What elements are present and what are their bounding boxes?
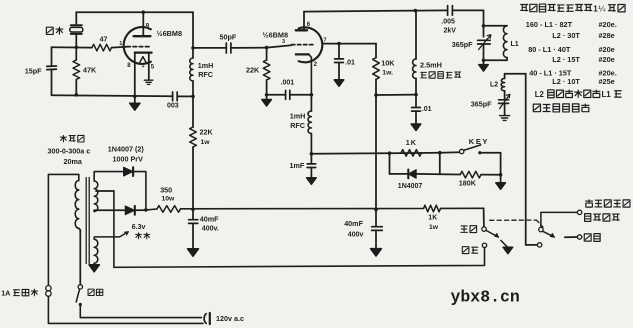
ground C8 — [411, 124, 421, 131]
svg-text:1w.: 1w. — [382, 70, 393, 77]
diode D3 1N4007 — [408, 170, 416, 179]
label 底部叠绕而成 — [533, 104, 540, 112]
svg-text:1K: 1K — [406, 138, 417, 147]
label 变压器 — [60, 135, 67, 142]
label 线输入端 — [585, 214, 591, 222]
node filter2 — [374, 208, 378, 212]
node 50pF tap — [191, 46, 195, 50]
svg-text:¼: ¼ — [598, 4, 606, 14]
svg-text:2: 2 — [314, 62, 318, 68]
resistor R6 1K — [401, 150, 422, 157]
node choke B+ tap — [414, 9, 418, 13]
node cathode return — [310, 93, 314, 97]
svg-text:#28e: #28e — [599, 31, 615, 40]
label 去接收机天 — [585, 199, 593, 207]
label 输入线圈的直径为1¼英寸 — [520, 4, 528, 11]
svg-text:400v.: 400v. — [202, 226, 219, 233]
wire 50pF left — [193, 47, 226, 49]
svg-text:365pF: 365pF — [452, 40, 473, 49]
switch arm TR — [486, 230, 498, 237]
wire tube1 plate lead — [142, 10, 146, 14]
svg-text:#20e.: #20e. — [599, 20, 617, 29]
wire rail to .005 — [415, 9, 447, 11]
svg-text:L2 · 10T: L2 · 10T — [552, 77, 580, 86]
svg-text:1000 PrV: 1000 PrV — [113, 155, 144, 164]
wire D3 to node B — [416, 173, 440, 175]
switch arm antenna — [543, 231, 555, 237]
wire fuse to plug — [48, 296, 203, 323]
terminal antenna switch feed — [537, 243, 541, 247]
fuse F1 1A — [46, 286, 51, 291]
svg-text:1A: 1A — [1, 289, 10, 298]
svg-text:003: 003 — [167, 103, 179, 110]
ground C11 — [188, 249, 199, 256]
wire crystal top stem — [75, 12, 77, 24]
resistor R9 1K 1w — [424, 205, 441, 212]
svg-text:ybx8.cn: ybx8.cn — [451, 288, 520, 307]
plug 120v a.c — [204, 314, 206, 324]
switch KEY — [460, 149, 464, 153]
switch pivot antenna — [539, 227, 543, 231]
terminal 发射 — [482, 243, 486, 247]
wire secondary top to D1 — [94, 172, 122, 181]
node filter1 — [191, 208, 195, 212]
wire top B+ rail (PA) — [304, 11, 415, 12]
svg-text:10w: 10w — [162, 196, 176, 203]
svg-text:180K: 180K — [459, 179, 477, 188]
svg-text:.01: .01 — [422, 106, 432, 113]
ground osc bus — [134, 96, 136, 103]
tube V1 heater arrow — [140, 57, 146, 63]
inductor RFC1 1mH — [190, 58, 193, 81]
tube V2 cathode — [296, 53, 309, 55]
transformer T1 core — [85, 178, 87, 264]
svg-text:120v a.c: 120v a.c — [216, 314, 244, 323]
wire keying bus — [311, 152, 389, 155]
node key ground — [499, 173, 503, 177]
capacitor C8 .01 (choke bypass) — [415, 95, 417, 108]
capacitor C2 .003 — [172, 92, 174, 101]
svg-text:6.3v: 6.3v — [132, 224, 146, 231]
svg-text:400v: 400v — [348, 232, 364, 239]
wire oscillator ground bus — [52, 95, 173, 96]
capacitor C12 40mF 400v — [375, 210, 377, 227]
svg-text:80 - L1 · 40T: 80 - L1 · 40T — [528, 45, 571, 54]
label 开关 — [88, 289, 94, 295]
svg-text:.01: .01 — [345, 60, 355, 67]
wire D1 out — [133, 172, 146, 210]
crystal Y1 (晶体) — [71, 24, 82, 26]
label 天线 — [584, 234, 591, 241]
svg-text:1N4007: 1N4007 — [398, 183, 423, 190]
resistor R4 22K — [266, 48, 268, 60]
wire secondary bottom to D2 — [93, 210, 95, 211]
capacitor C11 40mF 400v — [192, 209, 194, 219]
ground tank — [483, 60, 485, 64]
ground pin5 (bars) — [144, 79, 153, 81]
resistor R8 350 10w — [157, 206, 181, 213]
svg-text:7: 7 — [324, 38, 327, 44]
wire receiver contact — [541, 212, 578, 227]
svg-text:RFC: RFC — [198, 70, 213, 79]
ground TR arm — [503, 247, 513, 254]
capacitor C5 .01 — [338, 44, 340, 59]
diode D2 1N4007 — [125, 206, 135, 215]
svg-text:1mH: 1mH — [290, 112, 306, 121]
wire D2 out — [135, 209, 146, 211]
svg-text:1w: 1w — [201, 139, 211, 146]
transformer T1 primary — [75, 181, 79, 229]
svg-text:L1: L1 — [602, 90, 612, 99]
resistor R1 47 — [92, 44, 112, 51]
wire L2 to antenna switch — [505, 73, 526, 75]
tube V2 plate bar — [296, 29, 307, 31]
wire pin7 screen lead — [322, 43, 376, 45]
svg-text:KEY: KEY — [469, 137, 489, 146]
svg-text:#20e: #20e — [599, 45, 615, 54]
svg-text:½6BM8: ½6BM8 — [157, 29, 183, 38]
svg-text:350: 350 — [160, 186, 172, 195]
svg-text:10K: 10K — [381, 59, 395, 68]
wire pin5 to ground — [148, 53, 150, 80]
wire diode branch — [390, 173, 407, 175]
wire left branch down — [51, 47, 53, 66]
svg-text:2kV: 2kV — [444, 28, 457, 35]
node tank top tee — [482, 24, 486, 28]
switch S1 开关 — [78, 285, 82, 289]
wire antenna stub — [565, 236, 578, 238]
svg-text:+: + — [142, 64, 145, 70]
wire 50pF to V2 grid — [231, 47, 267, 49]
svg-text:1mF: 1mF — [290, 161, 305, 170]
svg-text:L2 · 15T: L2 · 15T — [552, 55, 580, 64]
node A keying — [388, 151, 392, 155]
tube V1 envelope arc — [124, 27, 151, 64]
node screen bypass tap — [337, 42, 341, 46]
capacitor C6 1mF — [310, 154, 312, 164]
node crystal/grid junction — [75, 46, 79, 50]
label 接收 — [460, 226, 467, 232]
wire top B+ rail (oscillator) — [76, 11, 193, 13]
svg-text:47: 47 — [100, 37, 108, 44]
tube V2 envelope arc — [299, 27, 323, 62]
inductor RFC3 2.5mH — [415, 11, 417, 59]
wire R5 to node — [375, 79, 377, 95]
wire rail to RFC1 — [192, 12, 194, 58]
label 晶体 — [46, 27, 53, 34]
capacitor C1 15pF — [47, 65, 57, 67]
wire R1 to tube1 grid — [112, 46, 128, 49]
label 灯丝 — [135, 232, 142, 239]
inductor RFC2 1mH — [310, 95, 312, 111]
wire node to choke bottom — [376, 94, 416, 96]
svg-text:8: 8 — [127, 63, 131, 69]
wire node A down — [389, 153, 391, 174]
capacitor C7 .005 2kV — [447, 6, 449, 16]
wire 180K right — [481, 174, 501, 176]
resistor R2 47K — [75, 47, 77, 60]
resistor R7 180K — [460, 171, 481, 178]
transformer T1 filament winding — [94, 239, 98, 263]
svg-text:1: 1 — [119, 41, 122, 47]
ground C10 (bars) — [500, 115, 510, 117]
wire node B to 180K — [440, 173, 460, 175]
ground C12 — [371, 249, 382, 257]
svg-text:L2 · 30T: L2 · 30T — [552, 31, 580, 40]
resistor R5 10K 1w — [375, 44, 377, 58]
inductor L1 — [484, 25, 508, 27]
svg-text:50pF: 50pF — [220, 33, 237, 42]
wire TX return — [114, 191, 485, 267]
wire R3 to B+ rail — [192, 147, 194, 209]
ground C6 — [307, 178, 317, 185]
node R2 bottom — [75, 93, 79, 97]
node B keying — [438, 151, 442, 155]
svg-text:#25e: #25e — [599, 77, 615, 86]
svg-text:RFC: RFC — [290, 121, 305, 130]
node 22K grid-leak tap — [265, 46, 269, 50]
wire V2 plate lead — [303, 12, 305, 31]
svg-text:1w: 1w — [429, 224, 439, 231]
svg-text:160 - L1 · 82T: 160 - L1 · 82T — [526, 20, 573, 29]
resistor R3 22K 1w — [190, 127, 197, 147]
svg-text:20ma: 20ma — [64, 157, 83, 166]
wire RFC1 to 22K-1w — [192, 81, 194, 127]
svg-text:40mF: 40mF — [200, 215, 219, 224]
svg-text:2.5mH: 2.5mH — [420, 61, 442, 70]
node choke bottom — [414, 93, 418, 97]
wire .005 to tank — [452, 9, 483, 11]
label 发射 — [462, 247, 469, 254]
svg-text:.005: .005 — [441, 19, 455, 26]
svg-text:300-0-300a c: 300-0-300a c — [48, 147, 91, 156]
wire arm to ground — [501, 240, 508, 247]
diode D1 1N4007 — [124, 167, 134, 176]
wire key to ground — [500, 153, 502, 175]
wire grid line left — [52, 46, 93, 48]
wire B+ rail — [146, 208, 484, 210]
node screen feed — [374, 93, 378, 97]
inductor L2 — [504, 74, 506, 79]
svg-text:L2: L2 — [490, 82, 498, 89]
capacitor C10 365pF variable — [499, 99, 509, 101]
capacitor C3 50pF — [225, 43, 227, 53]
node ground bus / cathode — [133, 95, 137, 99]
capacitor C9 365pF variable — [478, 39, 491, 41]
svg-text:#20e: #20e — [599, 55, 615, 64]
wire switch to plug — [80, 305, 201, 318]
tube V1 plate bar — [134, 35, 151, 37]
tube V1 grid (dashed) — [127, 46, 152, 48]
tube V1 cathode — [135, 51, 152, 53]
wire screen feed to B+ rail — [375, 95, 377, 210]
wire filament return — [93, 263, 95, 265]
node .003/RFC junction — [191, 95, 195, 99]
svg-text:1mH: 1mH — [198, 61, 214, 70]
ground C5 — [334, 80, 344, 87]
svg-text:1N4007 (2): 1N4007 (2) — [108, 145, 145, 154]
svg-text:3: 3 — [282, 39, 285, 45]
mechanical link (dashed) — [490, 219, 537, 221]
svg-text:L2: L2 — [535, 90, 545, 99]
transformer T1 HV secondary — [94, 181, 98, 212]
capacitor C4 .001 — [267, 94, 286, 96]
wire primary return lead — [79, 228, 81, 230]
svg-text:365pF: 365pF — [471, 100, 492, 109]
svg-text:22K: 22K — [246, 66, 260, 75]
svg-text:.001: .001 — [281, 80, 295, 87]
node rectifier junction — [144, 208, 148, 212]
wire HV center tap — [96, 190, 114, 192]
svg-text:L1: L1 — [511, 41, 519, 48]
svg-text:1K: 1K — [428, 215, 437, 222]
ground R4 (arrow) — [266, 95, 268, 100]
terminal antenna — [577, 235, 581, 239]
svg-text:15pF: 15pF — [25, 67, 42, 76]
terminal 接收 — [482, 227, 486, 231]
terminal to receiver — [577, 210, 581, 214]
wire rail to RX contact — [483, 208, 485, 227]
node R4 bottom — [265, 93, 269, 97]
node keying bus left — [310, 152, 314, 156]
wire primary hot lead — [48, 174, 78, 285]
svg-text:22K: 22K — [200, 128, 214, 137]
svg-text:5: 5 — [151, 65, 155, 71]
label 射频扼流圈 — [420, 72, 426, 78]
svg-text:47K: 47K — [83, 66, 97, 75]
wire filament 6.3v lead — [94, 237, 119, 239]
ground KEY — [496, 183, 506, 190]
node tank bottom tee — [482, 59, 486, 63]
svg-text:40mF: 40mF — [344, 219, 363, 228]
ground filament — [89, 265, 99, 272]
tube V2 grid (dashed) — [292, 44, 314, 46]
